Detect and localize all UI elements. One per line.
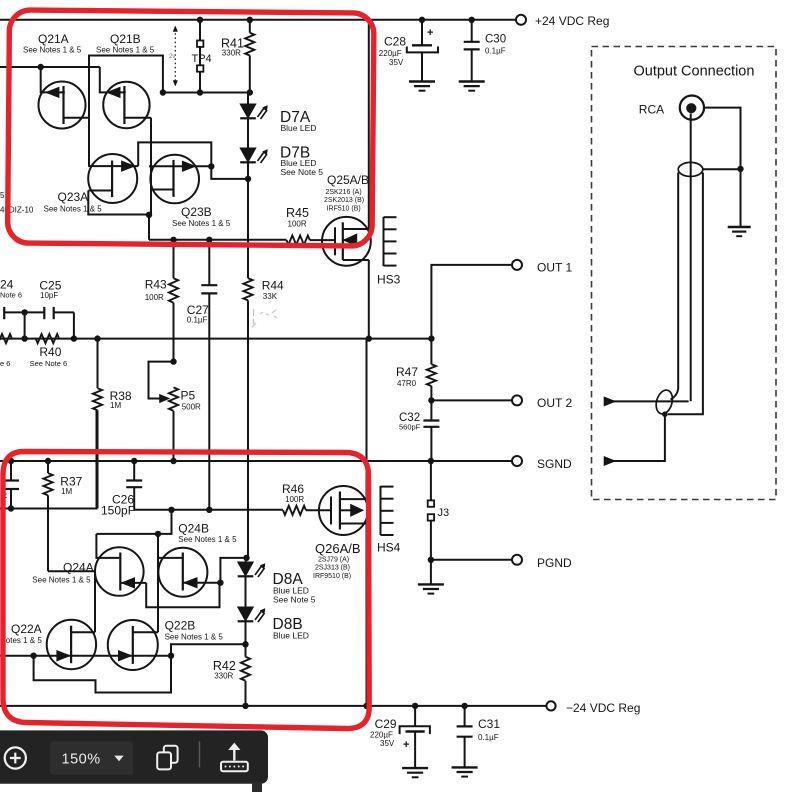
svg-text:0.1µF: 0.1µF: [187, 316, 208, 325]
resistor R44 33K: [243, 179, 284, 558]
svg-text:R44: R44: [262, 279, 284, 293]
node R41 bottom: [247, 89, 253, 95]
wire Q23A gate loop over Q23B: [138, 142, 211, 166]
wire PGND: [431, 559, 512, 561]
svg-text:560pF: 560pF: [399, 423, 421, 432]
wire +24V top rail: [0, 19, 516, 21]
wire input gate line y67: [0, 66, 100, 68]
capacitor C24 partial: [0, 278, 28, 339]
svg-text:Q24A: Q24A: [63, 561, 94, 575]
wire Q21A gate feed: [41, 67, 65, 92]
wire input gate line bottom: [0, 655, 171, 657]
wire OUT2: [431, 399, 512, 401]
wire Q23B node to LED column: [211, 166, 248, 179]
svg-text:Blue LED: Blue LED: [273, 631, 309, 641]
svg-text:100R: 100R: [288, 220, 307, 229]
wire Q21B gate feed: [100, 67, 126, 92]
svg-text:500R: 500R: [182, 403, 201, 412]
svg-text:Q23B: Q23B: [181, 205, 212, 219]
RCA jack: [680, 96, 704, 120]
svg-text:C30: C30: [485, 34, 506, 46]
svg-text:1M: 1M: [61, 487, 72, 496]
svg-text:Q24B: Q24B: [178, 522, 209, 536]
svg-text:47R0: 47R0: [397, 379, 417, 388]
resistor R45 100R: [286, 206, 335, 245]
svg-text:24: 24: [0, 278, 14, 292]
svg-text:Q21A: Q21A: [38, 32, 69, 46]
wire Q24 gate tie line: [146, 583, 219, 608]
svg-text:+: +: [403, 739, 409, 751]
svg-text:2SJ313 (B): 2SJ313 (B): [315, 565, 350, 572]
resistor R39 partial: [0, 334, 12, 343]
svg-text:100R: 100R: [145, 293, 164, 302]
svg-text:Q25A/B: Q25A/B: [327, 173, 369, 187]
diode D8B Blue LED: [238, 576, 309, 640]
node D8A top: [243, 555, 249, 561]
transistor Q24B: [158, 522, 237, 597]
resistor R40: [30, 334, 68, 368]
wire Q21B drain to Q23B: [150, 118, 152, 215]
svg-text:C28: C28: [384, 35, 406, 49]
ground output: [728, 169, 751, 236]
terminal OUT 1: [512, 260, 522, 270]
wire Q21A source loop: [89, 56, 163, 118]
terminal PGND: [512, 555, 522, 565]
capacitor C30: [459, 20, 506, 91]
diode D7B Blue LED: [240, 118, 323, 177]
svg-text:330R: 330R: [222, 49, 241, 58]
wire Q24B gate to LED column: [220, 558, 246, 583]
svg-text:See Notes 1 & 5: See Notes 1 & 5: [44, 205, 103, 214]
toolbar corner tab: [252, 782, 262, 792]
node C32-J3: [428, 458, 434, 464]
svg-text:See Notes 1 & 5: See Notes 1 & 5: [178, 535, 237, 544]
svg-text:RCA: RCA: [639, 103, 664, 117]
wire SGND rail: [0, 460, 512, 462]
wire shield to SGND arrow: [604, 414, 665, 465]
resistor R43 100R: [145, 240, 178, 362]
wire lower gnd-side line y508.5: [0, 410, 97, 508]
svg-text:See Notes 1 & 5: See Notes 1 & 5: [32, 576, 91, 585]
svg-text:2SK2013 (B): 2SK2013 (B): [324, 197, 364, 204]
svg-text:TP4: TP4: [192, 53, 212, 65]
node C25-R40: [71, 335, 77, 341]
arrow to OUT2: [604, 397, 689, 406]
transistor Q24A: [32, 547, 146, 596]
svg-text:PGND: PGND: [537, 556, 572, 570]
svg-text:See Notes 1 & 5: See Notes 1 & 5: [96, 46, 155, 55]
capacitor C26 150pF: [101, 461, 142, 518]
svg-text:−24 VDC Reg: −24 VDC Reg: [566, 701, 640, 715]
wire shield link: [703, 168, 741, 170]
terminal SGND: [512, 456, 522, 466]
measurement dashed line 2V: [169, 26, 178, 86]
jumper J3: [428, 461, 449, 560]
resistor R38 1M: [93, 339, 132, 509]
coax center conductor: [690, 114, 692, 402]
heatsink HS3: [377, 217, 401, 287]
node R42 bottom: [242, 703, 248, 709]
capacitor C31: [452, 706, 501, 777]
node R47-OUT2: [428, 397, 434, 403]
toolbar: [0, 730, 268, 783]
transistor Q26A/B MOSFET: [313, 486, 368, 580]
svg-text:2SJ79 (A): 2SJ79 (A): [318, 557, 349, 564]
svg-text:e 6: e 6: [0, 359, 10, 368]
svg-text:5: 5: [0, 191, 5, 200]
svg-text:OUT 1: OUT 1: [537, 261, 572, 275]
wire Q25 source to output rail: [368, 260, 370, 339]
node C29: [412, 703, 418, 709]
svg-text:1M: 1M: [110, 401, 121, 410]
capacitor C27 0.1uF: [187, 240, 218, 510]
svg-text:100R: 100R: [285, 495, 304, 504]
wire OUT1: [431, 265, 512, 339]
wire D7B cathode to node: [247, 162, 249, 179]
resistor R37 1M: [43, 461, 82, 571]
transistor Q21B: [96, 32, 155, 128]
svg-text:2v: 2v: [169, 54, 175, 60]
transistor Q23B: [149, 155, 231, 228]
svg-text:See Notes 1 & 5: See Notes 1 & 5: [165, 633, 224, 642]
wire RCA to shield gnd: [704, 108, 741, 169]
svg-text:150pF: 150pF: [101, 504, 135, 518]
transistor Q22A: [0, 620, 96, 669]
svg-text:10pF: 10pF: [40, 291, 58, 300]
svg-text:IRF510 (B): IRF510 (B): [327, 206, 361, 213]
svg-text:See Note 5: See Note 5: [273, 595, 316, 605]
wire -24V rail: [0, 705, 547, 707]
svg-text:R45: R45: [286, 206, 309, 220]
diode D7A Blue LED: [240, 93, 316, 134]
capacitor C32 560pF: [399, 400, 439, 461]
transistor Q22B: [108, 619, 224, 671]
wire D8B to node: [245, 621, 247, 644]
resistor R41 330R: [221, 20, 254, 93]
svg-text:IRF9510 (B): IRF9510 (B): [313, 573, 351, 580]
wire Q23A source down: [88, 191, 149, 215]
resistor R42 330R: [213, 644, 250, 706]
svg-text:See Notes 1 & 5: See Notes 1 & 5: [172, 219, 231, 228]
svg-text:R46: R46: [282, 482, 304, 496]
node C24: [21, 335, 27, 341]
svg-text:+: +: [427, 27, 433, 39]
svg-text:See Note 6: See Note 6: [30, 359, 68, 368]
node coax end: [662, 411, 668, 417]
coax jacket right: [668, 173, 703, 415]
svg-text:220µF: 220µF: [379, 49, 402, 58]
terminal OUT 2: [512, 395, 522, 405]
node P5 bottom: [168, 507, 174, 513]
svg-text:+24 VDC Reg: +24 VDC Reg: [535, 14, 609, 28]
wire Q25 drain to +24 rail: [368, 20, 370, 229]
wire Q25 gate rail: [149, 239, 287, 241]
node R37 top: [45, 458, 51, 464]
terminal -24 VDC Reg: [546, 701, 555, 710]
node source join: [146, 212, 152, 218]
svg-text:HS3: HS3: [377, 273, 401, 287]
wire Q24A top feed: [96, 534, 119, 558]
node rail-C30: [469, 17, 475, 23]
svg-text:Q26A/B: Q26A/B: [315, 541, 361, 556]
node PGND: [428, 557, 434, 563]
node LED-R44: [245, 176, 251, 182]
node Q25-Q26 output: [366, 335, 372, 341]
red annotation box 1: [7, 10, 374, 246]
node C26 top: [131, 458, 137, 464]
svg-text:Notes 1 & 5: Notes 1 & 5: [0, 636, 42, 645]
wire Q24 feed from gate rail: [96, 510, 171, 534]
svg-text:R40: R40: [39, 345, 61, 359]
wire Q26 source to -24 rail: [366, 524, 368, 706]
node shield: [737, 166, 743, 172]
svg-text:0.1µF: 0.1µF: [478, 733, 499, 742]
svg-text:35V: 35V: [389, 58, 404, 67]
svg-text:Blue LED: Blue LED: [281, 123, 317, 133]
svg-text:R47: R47: [396, 365, 418, 379]
diode D8A Blue LED: [238, 558, 316, 605]
capacitor C25 10pF: [25, 279, 74, 339]
svg-text:C31: C31: [478, 717, 500, 731]
capacitor C28: [379, 20, 438, 91]
wire Q26 gate rail y509.8: [134, 509, 283, 511]
node R43 top: [170, 237, 176, 243]
node gate-tie: [38, 64, 44, 70]
svg-text:33K: 33K: [263, 292, 278, 301]
node rail-R41: [247, 17, 253, 23]
svg-text:35V: 35V: [380, 739, 395, 748]
pencil mark faint: [252, 309, 277, 327]
coax cable shield top: [678, 162, 703, 176]
node gate-right: [168, 653, 174, 659]
output connection dashed box: [592, 47, 777, 500]
capacitor C-left partial: [1, 461, 20, 509]
wire gate bypass staircase: [34, 656, 171, 693]
wire R37 to Q22A drain: [48, 571, 95, 632]
wire Q26 drain to output rail: [366, 339, 368, 500]
svg-text:Output Connection: Output Connection: [634, 64, 755, 80]
node Q24B gate: [217, 580, 223, 586]
capacitor C29: [370, 706, 430, 777]
svg-text:J3: J3: [438, 507, 450, 519]
heatsink HS4: [377, 486, 401, 555]
node Q23B drain-gate: [208, 163, 214, 169]
svg-text:Q21B: Q21B: [110, 32, 141, 46]
svg-text:HS4: HS4: [377, 541, 401, 555]
node C27 top: [206, 237, 212, 243]
node D8B-R42: [242, 641, 248, 647]
node Q21B drain: [160, 89, 166, 95]
svg-text:2SK216 (A): 2SK216 (A): [326, 189, 362, 196]
svg-text:R43: R43: [145, 278, 167, 292]
svg-text:SGND: SGND: [537, 457, 572, 471]
svg-text:330R: 330R: [214, 672, 233, 681]
node R38 top: [94, 335, 100, 341]
node C31: [461, 703, 467, 709]
ground PGND: [418, 560, 444, 594]
node C27 bottom: [206, 507, 212, 513]
transistor Q23A: [44, 154, 139, 214]
node capleft bottom: [8, 505, 14, 511]
svg-text:Q23A: Q23A: [58, 190, 89, 204]
node cap-left: [8, 458, 14, 464]
node R47 top: [428, 335, 434, 341]
svg-text:P5: P5: [181, 389, 196, 403]
svg-text:OUT 2: OUT 2: [537, 396, 572, 410]
wire R42 link: [171, 644, 246, 655]
resistor R46 100R: [282, 482, 331, 515]
node rail-TP4: [197, 17, 203, 23]
node Q26 source: [363, 703, 369, 709]
node P5 col: [170, 458, 176, 464]
svg-text:Q22B: Q22B: [165, 619, 196, 633]
svg-text:150%: 150%: [62, 752, 101, 768]
svg-text:C29: C29: [375, 717, 397, 731]
svg-text:Note 6: Note 6: [0, 291, 22, 300]
trimmer P5 500R: [149, 358, 202, 461]
red annotation box 2: [3, 452, 369, 729]
resistor R47 47R0: [396, 339, 436, 401]
transistor Q25A/B MOSFET: [322, 173, 371, 266]
coax end ellipse: [654, 388, 676, 416]
wire tie to Q22B top: [157, 534, 159, 632]
node Q24-Q22B tie: [155, 531, 161, 537]
svg-text:Q22A: Q22A: [11, 622, 42, 636]
node TP4 junction: [197, 89, 203, 95]
svg-text:See Notes 1 & 5: See Notes 1 & 5: [23, 46, 82, 55]
wire Q21A drain to Q23A gate: [88, 118, 90, 166]
terminal +24 VDC Reg: [516, 15, 526, 25]
wire bias row y92: [163, 92, 250, 94]
node gate-left: [30, 653, 36, 659]
coax jacket left: [671, 173, 679, 400]
svg-text:See Note 5: See Note 5: [281, 167, 324, 177]
test point TP4: [192, 20, 212, 93]
wire output rail: [0, 338, 431, 340]
transistor Q21A: [23, 32, 89, 129]
wire source join to gate rail: [148, 215, 150, 240]
node rail-C28: [419, 17, 425, 23]
svg-text:0.1µF: 0.1µF: [485, 47, 506, 56]
